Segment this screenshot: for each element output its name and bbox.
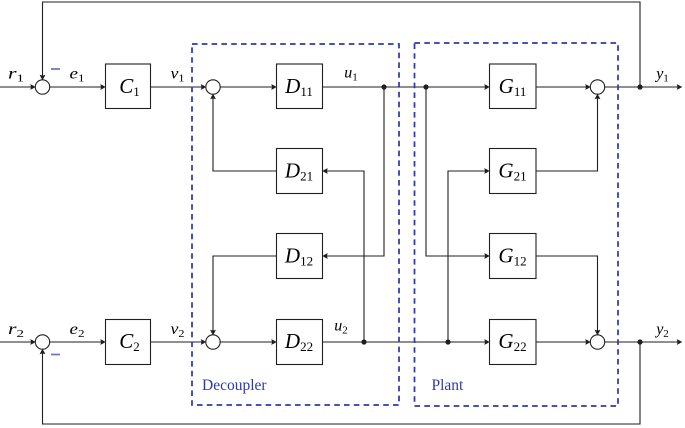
summing junction S3 <box>590 80 604 94</box>
wire G11 to S3 <box>536 86 590 88</box>
block G22 <box>490 320 537 365</box>
node u1 tap <box>381 84 386 89</box>
node y2 <box>637 339 642 344</box>
wire top feedback from y1 node to S1 <box>43 2 641 87</box>
wire u1 tap to D12 <box>323 87 384 256</box>
wire e1 <box>50 86 106 88</box>
wire r1 input <box>0 86 35 88</box>
summing junction S5 <box>206 335 220 349</box>
wire D21 to S2 <box>213 94 277 171</box>
wire D12 to S5 <box>213 256 277 335</box>
summing junction S1 <box>35 80 49 94</box>
block G11 <box>490 64 537 109</box>
wire u1 tap to G12 <box>426 87 489 256</box>
minus sign at S4 <box>51 354 60 356</box>
minus sign at S1 <box>51 68 60 70</box>
wire bottom feedback from y2 node to S4 <box>43 342 641 424</box>
wire u2 (D22 to G22) <box>323 341 490 343</box>
node y1 <box>637 84 642 89</box>
svg-text:y2: y2 <box>654 321 669 340</box>
wire S5 to D22 <box>220 341 276 343</box>
svg-text:y1: y1 <box>654 66 669 85</box>
svg-text:Plant: Plant <box>432 377 465 394</box>
svg-text:v2: v2 <box>171 321 185 340</box>
node plant input 2 <box>445 339 450 344</box>
summing junction S4 <box>35 335 49 349</box>
svg-text:r1: r1 <box>8 66 24 85</box>
wire G12 to S6 <box>536 256 598 335</box>
svg-text:Decoupler: Decoupler <box>202 377 267 394</box>
svg-text:e1: e1 <box>70 66 85 85</box>
wire G22 to S6 <box>536 341 590 343</box>
dashed box Plant <box>415 43 619 406</box>
wire G21 to S3 <box>536 94 598 171</box>
block D11 <box>277 64 323 109</box>
wire e2 <box>50 341 106 343</box>
dashed box Decoupler <box>192 44 399 405</box>
wire y2 output <box>605 341 682 343</box>
block G12 <box>490 234 537 279</box>
wire S2 to D11 <box>220 86 276 88</box>
svg-text:e2: e2 <box>70 321 85 340</box>
svg-text:r2: r2 <box>8 321 24 340</box>
block C1 <box>106 64 151 109</box>
summing junction S2 <box>206 80 220 94</box>
wire r2 input <box>0 341 35 343</box>
wire v2 <box>151 341 206 343</box>
node plant input 1 <box>423 84 428 89</box>
summing junction S6 <box>590 335 604 349</box>
block D12 <box>277 234 323 279</box>
block G21 <box>490 149 537 194</box>
wire v1 <box>151 86 206 88</box>
block C2 <box>106 320 151 365</box>
node u2 tap <box>361 339 366 344</box>
wire y1 output <box>605 86 682 88</box>
wire u2 tap to G21 <box>448 171 489 342</box>
svg-text:u2: u2 <box>334 318 348 337</box>
svg-text:u1: u1 <box>344 65 358 84</box>
svg-text:v1: v1 <box>171 66 185 85</box>
block D21 <box>277 149 323 194</box>
wire u1 (D11 to G11) <box>323 86 490 88</box>
block D22 <box>277 320 323 365</box>
wire u2 tap to D21 <box>323 171 364 342</box>
